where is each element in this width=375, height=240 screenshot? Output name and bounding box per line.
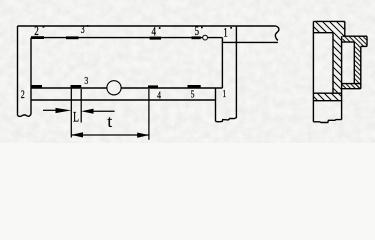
sleeve flange bottom edge — [313, 32, 333, 34]
label 4' top — [152, 25, 157, 39]
ring wall left edge — [353, 42, 355, 84]
label 1' top — [223, 26, 228, 40]
sleeve wall/box right boundary — [341, 36, 343, 119]
arrow t right (tip at x=148.9 pointing right) — [137, 133, 149, 138]
tick insert 2 bottom — [31, 85, 42, 88]
label 4 bottom — [157, 90, 161, 102]
tick insert 4' top — [150, 37, 161, 40]
right leg left vertical V4 — [215, 88, 217, 121]
arrow L right (pointing left into x=81.2) — [81, 109, 93, 114]
ring top band top edge — [343, 35, 367, 37]
right outer vertical V5 — [235, 26, 237, 118]
arrow t left (tip at x=71.3 pointing left) — [71, 132, 83, 137]
label 1 bottom — [222, 89, 226, 101]
sleeve top edge — [313, 20, 344, 22]
ring top band inner edge — [342, 41, 354, 43]
label L — [73, 109, 79, 126]
tick insert 3 bottom — [71, 85, 82, 88]
paper texture overlay — [0, 0, 375, 143]
sleeve bottom flange hatch — [313, 93, 341, 101]
dimension L right tail — [92, 110, 115, 112]
dimension t line — [71, 134, 149, 136]
ring step edge — [361, 45, 367, 47]
label 3 bottom — [84, 76, 88, 88]
dimension extension line at x=148.9 — [148, 89, 150, 140]
sleeve top flange hatch — [313, 21, 344, 36]
left leg wavy break bottom — [18, 114, 32, 116]
left outer vertical V1 — [17, 26, 19, 116]
ring bottom band hatch — [342, 84, 361, 89]
big hole circle on bottom line — [107, 81, 121, 95]
ring wall right edge — [360, 46, 362, 88]
sleeve outline left vertical — [312, 21, 314, 121]
ring bottom band bottom edge — [342, 88, 361, 90]
dimension extension line at x=81.2 — [80, 89, 82, 123]
dimension extension line at x=71.3 — [70, 89, 72, 138]
right leg jagged break bottom — [216, 118, 237, 122]
sleeve wall left edge — [332, 33, 334, 93]
tick insert 5 bottom — [188, 85, 201, 88]
ring wall hatch — [354, 42, 361, 89]
shaft bottom line H3 — [222, 41, 278, 43]
sleeve bottom flange top edge — [313, 92, 341, 94]
tick insert 4 bottom — [148, 85, 158, 88]
shaft break squiggle right end — [275, 26, 279, 41]
sleeve wall strip hatch — [333, 33, 342, 93]
ring top band hatch — [343, 36, 367, 46]
sleeve flange right edge — [344, 21, 346, 36]
arrow L left (pointing right into x=71.3) — [56, 108, 72, 113]
label 2' top — [34, 24, 39, 38]
dimension L left tail — [43, 109, 58, 111]
tick insert 2' top — [31, 36, 44, 39]
right inner vertical V3 — [221, 38, 223, 88]
label 5 bottom — [191, 89, 195, 101]
sleeve bottom flange bottom edge — [313, 100, 341, 102]
tick insert 3' top — [66, 36, 79, 39]
label 2 bottom — [21, 89, 25, 102]
inner bottom line H4 (gap at big circle) — [31, 87, 222, 89]
label 5' top — [195, 25, 200, 39]
small hole circle on top line — [203, 35, 208, 40]
label 3' top — [81, 24, 85, 37]
wire top outer line H1 — [18, 25, 276, 27]
ring bottom band top edge — [342, 83, 361, 85]
outer bottom line H5 — [31, 99, 216, 101]
inner top line H2 (gap at small circle) — [31, 37, 222, 39]
ring outer right edge — [366, 36, 368, 46]
left inner vertical V2 — [30, 38, 32, 115]
sleeve break bottom edge — [313, 120, 341, 123]
tick insert 5' top — [192, 36, 201, 39]
